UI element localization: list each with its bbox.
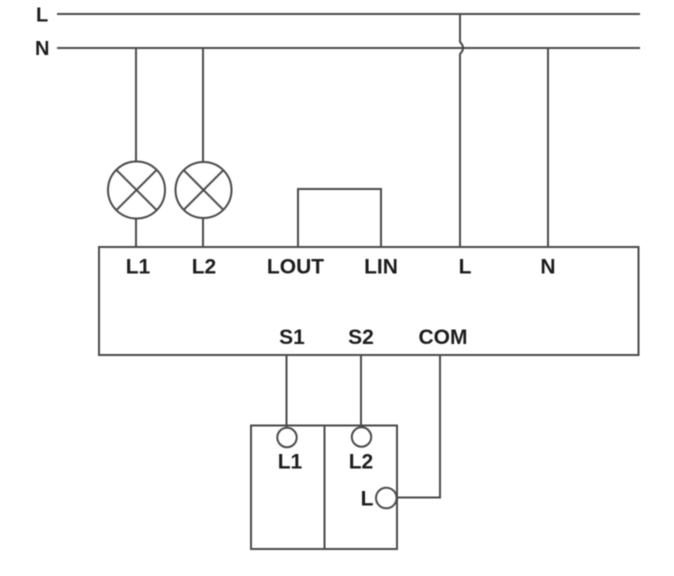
svg-text:L1: L1 bbox=[278, 451, 303, 474]
device box U1 (switch module) bbox=[99, 247, 639, 355]
svg-text:S2: S2 bbox=[348, 326, 374, 349]
wire COM to switch terminal L bbox=[397, 355, 440, 498]
svg-text:N: N bbox=[35, 38, 49, 60]
wire L rail bbox=[57, 13, 640, 15]
wire N rail bbox=[57, 47, 640, 49]
jumper wire LOUT to LIN bbox=[298, 189, 381, 247]
svg-text:COM: COM bbox=[419, 326, 468, 349]
wire lamp E1 feed from N rail bbox=[135, 48, 137, 162]
svg-text:N: N bbox=[540, 256, 555, 279]
switch terminal circle L bbox=[376, 488, 397, 509]
switch box divider bbox=[324, 426, 326, 550]
wire N rail to terminal N bbox=[547, 48, 549, 247]
svg-text:L2: L2 bbox=[349, 451, 374, 474]
lamp E1 bbox=[108, 162, 165, 219]
wire lamp E2 to terminal L2 bbox=[202, 218, 204, 247]
svg-text:LIN: LIN bbox=[364, 256, 398, 279]
switch terminal circle L2 bbox=[352, 427, 371, 446]
wire lamp E1 to terminal L1 bbox=[135, 219, 137, 248]
svg-text:L: L bbox=[361, 488, 374, 511]
lamp E2 bbox=[176, 162, 232, 218]
wire lamp E2 feed from N rail bbox=[202, 48, 204, 162]
svg-text:LOUT: LOUT bbox=[267, 256, 324, 279]
svg-text:L: L bbox=[36, 5, 48, 27]
svg-text:L2: L2 bbox=[192, 256, 217, 279]
wire S2 to switch terminal L2 bbox=[360, 355, 362, 428]
switch terminal circle L1 bbox=[277, 428, 296, 447]
wire S1 to switch terminal L1 bbox=[286, 355, 288, 428]
svg-text:L: L bbox=[459, 256, 472, 279]
switch box S1/S2 (two-gang wall switch) bbox=[251, 426, 397, 550]
wire L rail to terminal L (with hop over N rail) bbox=[460, 14, 463, 247]
svg-text:S1: S1 bbox=[279, 326, 305, 349]
svg-text:L1: L1 bbox=[126, 256, 151, 279]
